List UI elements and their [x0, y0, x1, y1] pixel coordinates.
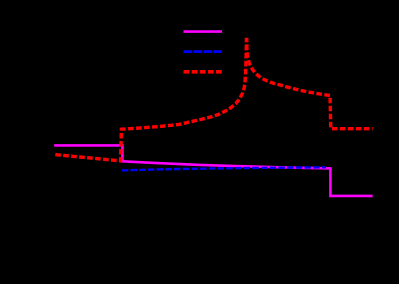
curve magenta solid: [54, 145, 372, 196]
legend blue dashed sample: [184, 50, 223, 53]
curve red dashed: [55, 40, 372, 161]
legend magenta solid sample: [184, 30, 223, 33]
curve blue dashed: [122, 167, 326, 170]
legend red dashed sample: [184, 70, 223, 74]
